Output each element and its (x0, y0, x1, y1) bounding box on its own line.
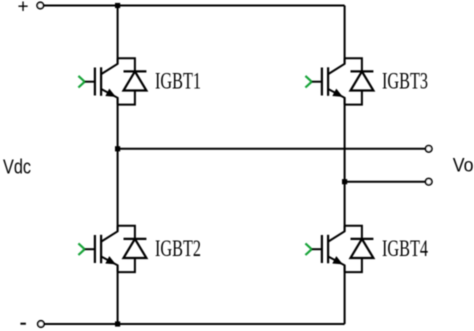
Q4 gate lead wire (312, 248, 322, 250)
Q3 collector diagonal (328, 58, 344, 74)
terminal circle: output A (426, 146, 432, 152)
Q1 gate node arrow (green) (78, 76, 84, 88)
Q3 diode cathode bar (351, 70, 374, 72)
Q1 gate bar (94, 68, 96, 96)
Q1 emitter arrowhead (105, 89, 116, 97)
IGBT Q4 (305, 226, 428, 272)
wire: output A from left midpoint (118, 148, 426, 150)
terminal circle: DC+ input (37, 2, 43, 8)
Q1 antiparallel diode jog wires (118, 58, 135, 71)
Q2 antiparallel diode jog wires (118, 226, 135, 239)
wire: right leg rail (middle) (344, 98, 346, 232)
Q2 collector diagonal (101, 226, 117, 242)
Q4 body bar (327, 235, 329, 263)
wire: right leg rail (lower) (344, 265, 346, 324)
wire: right leg rail (upper) (344, 6, 346, 64)
Q3 gate bar (321, 68, 323, 96)
junction at (345,182) (342, 179, 347, 184)
Q1 emitter diagonal (101, 89, 117, 105)
svg-text:Vdc: Vdc (3, 157, 31, 179)
Q3 gate node arrow (green) (305, 76, 311, 88)
wire: left leg rail (upper) (117, 6, 119, 64)
IGBT Q1 (78, 58, 201, 104)
wire: top DC bus (44, 5, 345, 7)
label - (negative terminal) (20, 323, 26, 325)
Q2 diode cathode bar (124, 238, 147, 240)
terminal circle: output B (426, 179, 432, 185)
wire: output B from right midpoint (345, 181, 426, 183)
svg-text:IGBT4: IGBT4 (382, 236, 428, 261)
Q3 antiparallel diode jog wires (345, 58, 362, 71)
Q2 emitter diagonal (101, 257, 117, 273)
Q4 collector diagonal (328, 226, 344, 242)
svg-text:IGBT2: IGBT2 (155, 236, 201, 261)
svg-text:IGBT3: IGBT3 (382, 69, 428, 94)
Q3 emitter diagonal (328, 89, 344, 105)
Q2 gate node arrow (green) (78, 243, 84, 255)
Q1 body bar (100, 67, 102, 96)
Q4 diode triangle (351, 239, 374, 258)
Q4 gate node arrow (green) (305, 243, 311, 255)
Q3 gate lead wire (312, 81, 322, 83)
svg-text:Vo: Vo (453, 155, 474, 176)
junction at (118,149) (115, 146, 120, 151)
Q3 emitter arrowhead (332, 89, 343, 97)
Q2 body bar (100, 235, 102, 263)
terminal circle: DC- input (38, 321, 44, 327)
svg-text:+: + (18, 0, 29, 18)
IGBT Q2 (78, 226, 201, 272)
Q3 diode triangle (351, 71, 374, 90)
IGBT Q3 (305, 58, 428, 104)
wire: bottom DC bus (44, 323, 344, 325)
Q1 gate lead wire (85, 81, 95, 83)
junction at (118,6) (115, 3, 120, 8)
Q3 body bar (327, 67, 329, 96)
Q4 gate bar (321, 235, 323, 263)
wire: left leg rail (middle) (117, 98, 119, 232)
junction at (118,324) (115, 321, 120, 326)
Q2 emitter arrowhead (105, 256, 116, 264)
Q4 antiparallel diode jog wires (345, 226, 362, 239)
svg-text:IGBT1: IGBT1 (155, 69, 201, 94)
Q2 gate lead wire (85, 248, 95, 250)
Q1 collector diagonal (101, 58, 117, 74)
Q1 diode triangle (124, 71, 147, 90)
Q2 diode triangle (124, 239, 147, 258)
Q1 diode cathode bar (124, 70, 147, 72)
Q4 emitter arrowhead (332, 256, 343, 264)
wire: left leg rail (lower) (117, 265, 119, 324)
Q2 gate bar (94, 235, 96, 263)
Q4 diode cathode bar (351, 238, 374, 240)
Q4 emitter diagonal (328, 257, 344, 273)
